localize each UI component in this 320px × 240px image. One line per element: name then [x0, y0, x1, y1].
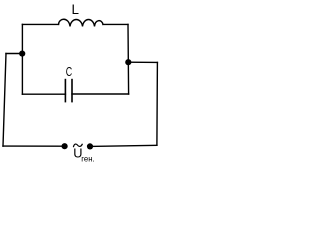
svg-text:L: L [72, 2, 79, 17]
wire bottom right segment [90, 145, 157, 146]
capacitor left plate [64, 80, 66, 102]
generator label U~ ген. [73, 144, 94, 163]
generator terminal dot left [62, 143, 68, 149]
svg-text:ген.: ген. [81, 154, 94, 163]
wire bottom left segment [3, 145, 65, 147]
node A junction dot left [19, 51, 25, 57]
generator terminal dot right [87, 143, 93, 149]
wire outer right vertical [156, 62, 159, 145]
wire left inner vertical [21, 24, 23, 94]
wire capacitor right lead [72, 93, 129, 95]
wire right inner vertical [127, 24, 130, 94]
svg-text:C: C [66, 64, 72, 79]
wire capacitor left lead [22, 93, 65, 95]
wire top-left segment [22, 23, 58, 25]
capacitor C [22, 80, 128, 102]
wire right stub to inner loop [128, 61, 157, 63]
wire left stub to outer loop [6, 53, 22, 55]
wire top-right segment [103, 23, 128, 25]
inductor L [59, 19, 104, 26]
capacitor right plate [71, 80, 73, 102]
node B junction dot right [125, 59, 131, 65]
wire outer left vertical [3, 54, 6, 147]
